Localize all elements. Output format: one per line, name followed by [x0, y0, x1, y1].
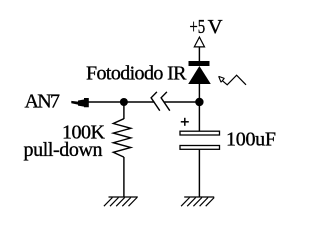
ground (right): [181, 197, 214, 206]
wire capacitor to ground: [198, 149, 200, 197]
junction node B (right): [195, 98, 203, 106]
photodiode D1 triangle (anode, pointing up): [188, 66, 211, 84]
svg-text:Fotodiodo IR: Fotodiodo IR: [86, 62, 187, 84]
wire node to capacitor: [198, 102, 200, 131]
arrowhead to AN7 (points left): [71, 98, 89, 107]
wire diode anode to node: [198, 84, 200, 102]
power symbol +5V (open triangle): [194, 37, 204, 47]
svg-text:AN7: AN7: [25, 91, 61, 113]
wire break symbol (double chevron): [151, 92, 160, 111]
svg-text:V: V: [208, 16, 224, 38]
capacitor C1 bottom plate: [180, 146, 220, 150]
svg-text:100uF: 100uF: [226, 128, 276, 150]
svg-text:+5: +5: [189, 16, 205, 38]
junction node A (left): [120, 98, 128, 106]
wire break to right node: [164, 101, 199, 103]
photodiode D1 cathode bar: [189, 61, 210, 66]
resistor R1 100K zigzag: [113, 119, 131, 157]
ground (left): [104, 197, 138, 206]
wire +5V to diode cathode: [198, 47, 200, 61]
wire arrow to left node: [88, 101, 155, 103]
wire resistor to ground: [123, 157, 125, 197]
svg-text:pull-down: pull-down: [24, 139, 103, 161]
capacitor C1 top plate: [180, 131, 220, 135]
capacitor C1 plus mark: [181, 118, 189, 126]
wire node to resistor: [123, 102, 125, 119]
IR light arrow (incoming ray): [219, 76, 225, 82]
